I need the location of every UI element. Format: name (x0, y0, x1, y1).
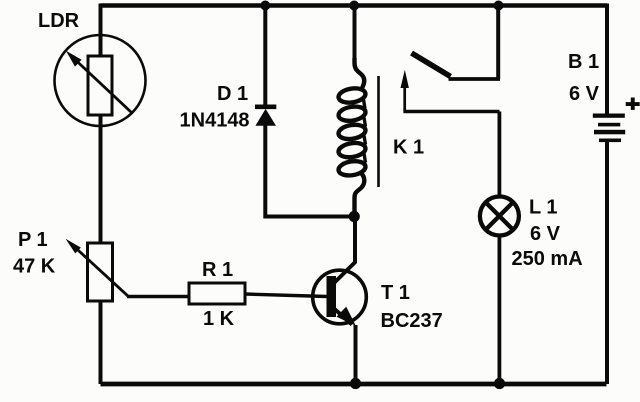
transistor T1 BC237 (313, 262, 367, 326)
wire switch to right vertical (449, 77, 501, 81)
node junction dot D1 top (260, 1, 270, 11)
relay actuation arrow (401, 70, 409, 111)
wire P1 wiper to R1 (127, 295, 189, 298)
node junction dot coil bottom (349, 211, 360, 222)
resistor R1 (189, 283, 245, 304)
relay switch blade (412, 53, 451, 77)
svg-text:1 K: 1 K (203, 308, 235, 330)
svg-text:P 1: P 1 (18, 229, 48, 251)
svg-text:250 mA: 250 mA (512, 248, 583, 270)
wire battery to bottom rail (605, 142, 609, 384)
svg-text:1N4148: 1N4148 (180, 110, 250, 132)
lamp L1 (480, 197, 519, 236)
wire lamp to bottom rail (497, 236, 501, 385)
svg-text:6 V: 6 V (530, 223, 561, 245)
node junction dot emitter bottom (350, 378, 361, 389)
wire diode to junction (263, 125, 267, 215)
svg-text:BC237: BC237 (381, 310, 443, 332)
diode D1 1N4148 (255, 107, 276, 126)
wire D1 branch: top rail to diode (263, 4, 267, 105)
wire junction to T1 collector (353, 217, 357, 264)
wire T1 emitter to bottom rail (354, 325, 358, 384)
relay coil K1 (337, 58, 366, 216)
svg-text:LDR: LDR (38, 10, 80, 32)
wire LDR to P1 (99, 115, 103, 243)
svg-text:47 K: 47 K (13, 256, 56, 278)
wire bottom rail (101, 382, 607, 387)
svg-text:K 1: K 1 (393, 137, 424, 159)
svg-text:L 1: L 1 (529, 197, 558, 219)
wire P1 to bottom rail (99, 301, 103, 384)
wire top rail (101, 3, 608, 8)
wire K1 branch: top rail to coil (353, 4, 357, 61)
wire D1 bottom horizontal to K1 node (263, 215, 354, 219)
relay K1 actuator bar (377, 76, 380, 187)
battery plus sign (626, 98, 640, 110)
wire R1 to T1 base (245, 294, 327, 297)
wire left branch: top rail to LDR (99, 4, 103, 57)
svg-text:B 1: B 1 (568, 51, 599, 73)
node junction dot lamp bottom (494, 378, 505, 389)
potentiometer P1 (66, 239, 129, 301)
svg-text:T 1: T 1 (381, 282, 410, 304)
node junction dot K1 top (349, 1, 359, 11)
svg-text:6 V: 6 V (569, 83, 600, 105)
battery B1 (593, 114, 625, 143)
svg-text:R 1: R 1 (202, 259, 233, 281)
wire battery branch top (605, 4, 609, 115)
wire down to lamp L1 (497, 112, 501, 197)
wire arrow to lamp branch (403, 110, 499, 113)
wire top rail to switch (496, 4, 500, 80)
LDR photoresistor (55, 35, 146, 126)
node junction dot switch top (494, 1, 504, 11)
svg-text:D 1: D 1 (217, 83, 248, 105)
